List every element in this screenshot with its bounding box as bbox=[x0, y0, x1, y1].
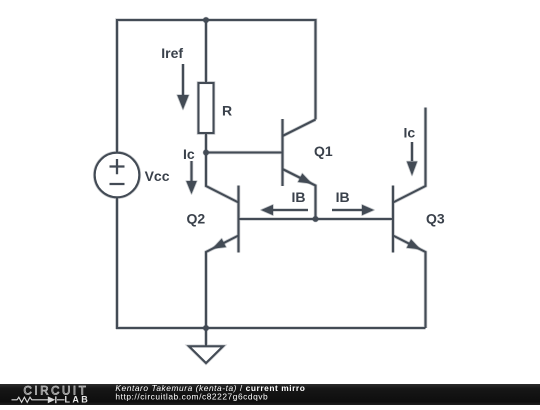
svg-text:Ic: Ic bbox=[404, 125, 416, 141]
svg-text:Vcc: Vcc bbox=[145, 168, 170, 184]
svg-text:Q3: Q3 bbox=[426, 211, 445, 227]
svg-text:IB: IB bbox=[336, 189, 350, 205]
svg-text:R: R bbox=[222, 103, 232, 119]
svg-text:http://circuitlab.com/c82227g6: http://circuitlab.com/c82227g6cdqvb bbox=[115, 391, 268, 401]
svg-text:LAB: LAB bbox=[65, 394, 91, 404]
svg-text:Ic: Ic bbox=[183, 146, 195, 162]
svg-text:IB: IB bbox=[292, 189, 306, 205]
svg-text:Q2: Q2 bbox=[187, 211, 206, 227]
svg-text:Iref: Iref bbox=[161, 45, 183, 61]
svg-text:Q1: Q1 bbox=[314, 143, 333, 159]
